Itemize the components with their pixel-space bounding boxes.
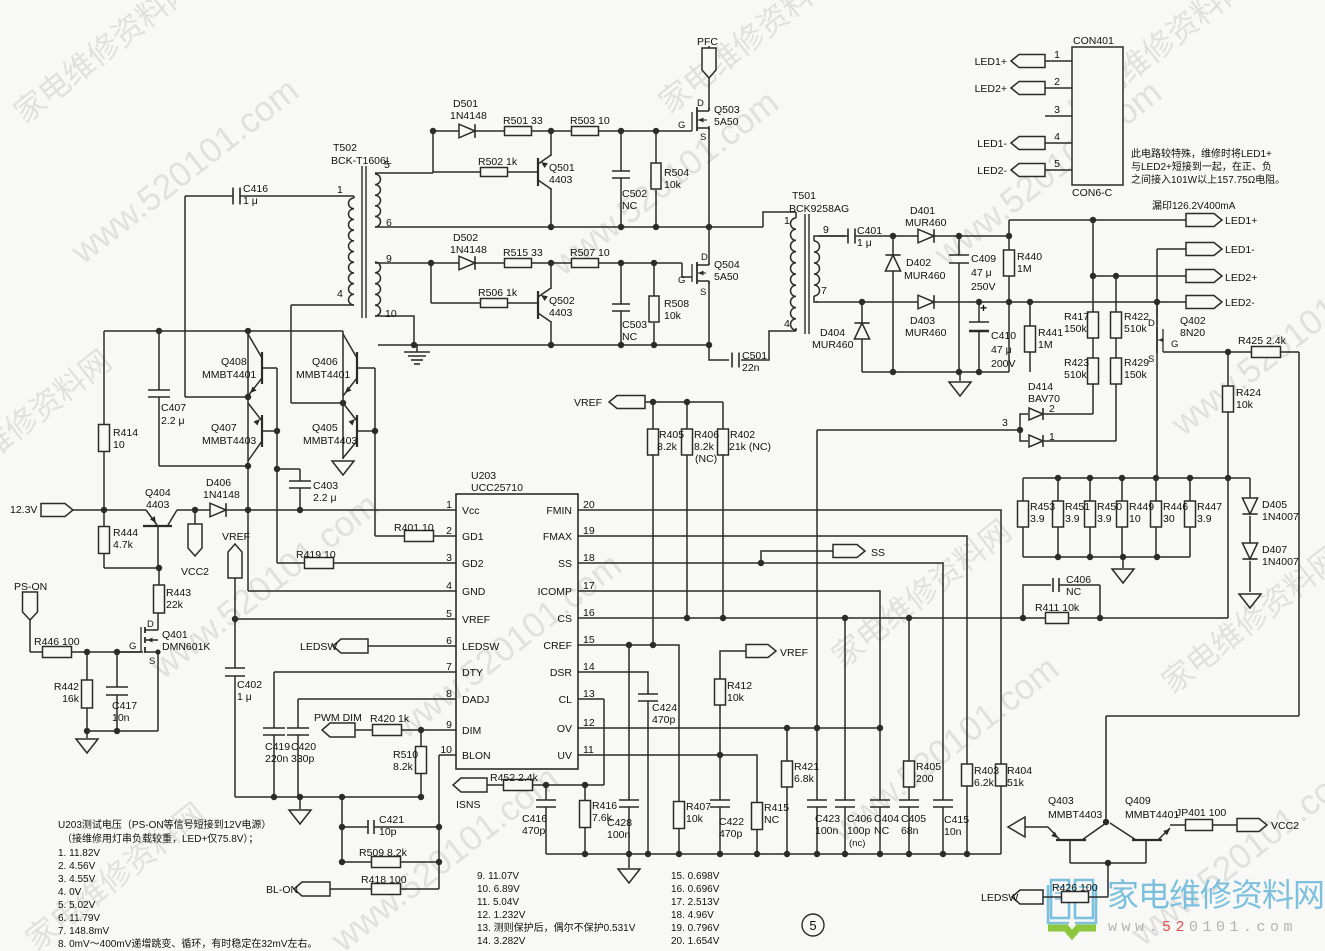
svg-text:SS: SS bbox=[558, 558, 572, 570]
svg-text:MMBT4403: MMBT4403 bbox=[303, 435, 357, 447]
svg-text:UV: UV bbox=[557, 750, 572, 762]
svg-text:D: D bbox=[701, 252, 708, 263]
svg-text:D406: D406 bbox=[206, 477, 231, 489]
svg-text:330p: 330p bbox=[291, 753, 315, 765]
svg-text:5: 5 bbox=[1054, 158, 1060, 170]
svg-text:3: 3 bbox=[1002, 417, 1008, 429]
svg-text:14. 3.282V: 14. 3.282V bbox=[477, 936, 526, 947]
svg-text:1: 1 bbox=[446, 499, 452, 511]
svg-text:D407: D407 bbox=[1262, 544, 1287, 556]
svg-text:19: 19 bbox=[583, 525, 595, 537]
svg-text:100p: 100p bbox=[847, 825, 871, 837]
svg-text:R444: R444 bbox=[113, 527, 138, 539]
svg-text:C419: C419 bbox=[265, 741, 290, 753]
svg-text:1: 1 bbox=[1049, 431, 1055, 443]
svg-text:R402: R402 bbox=[730, 429, 755, 441]
svg-text:C420: C420 bbox=[291, 741, 316, 753]
svg-text:1M: 1M bbox=[1038, 339, 1053, 351]
svg-text:16. 0.696V: 16. 0.696V bbox=[671, 884, 720, 895]
svg-text:C417: C417 bbox=[112, 700, 137, 712]
svg-text:2: 2 bbox=[446, 525, 452, 537]
svg-text:250V: 250V bbox=[971, 281, 996, 293]
svg-text:Q405: Q405 bbox=[312, 422, 338, 434]
svg-text:470p: 470p bbox=[719, 828, 743, 840]
svg-text:LED2-: LED2- bbox=[977, 165, 1007, 177]
svg-text:Vcc: Vcc bbox=[462, 505, 480, 517]
svg-text:10n: 10n bbox=[944, 826, 962, 838]
svg-text:MUR460: MUR460 bbox=[812, 339, 854, 351]
svg-text:PS-ON: PS-ON bbox=[14, 581, 47, 593]
svg-text:1N4148: 1N4148 bbox=[450, 110, 487, 122]
svg-text:1N4007: 1N4007 bbox=[1262, 511, 1299, 523]
svg-text:R504: R504 bbox=[664, 167, 689, 179]
svg-text:5A50: 5A50 bbox=[714, 271, 739, 283]
svg-text:C406: C406 bbox=[847, 813, 872, 825]
svg-text:CS: CS bbox=[557, 613, 572, 625]
svg-text:LED1+: LED1+ bbox=[975, 56, 1007, 68]
svg-text:R441: R441 bbox=[1038, 327, 1063, 339]
svg-text:R422: R422 bbox=[1124, 311, 1149, 323]
svg-text:LEDSW: LEDSW bbox=[300, 641, 337, 653]
svg-text:C405: C405 bbox=[901, 813, 926, 825]
svg-text:10p: 10p bbox=[379, 826, 397, 838]
svg-text:CL: CL bbox=[559, 694, 573, 706]
svg-text:5A50: 5A50 bbox=[714, 116, 739, 128]
svg-text:3: 3 bbox=[1054, 104, 1060, 116]
svg-text:BL-ON: BL-ON bbox=[266, 884, 298, 896]
svg-text:Q504: Q504 bbox=[714, 259, 740, 271]
svg-text:18. 4.96V: 18. 4.96V bbox=[671, 910, 714, 921]
svg-text:G: G bbox=[129, 641, 136, 652]
svg-text:10: 10 bbox=[385, 308, 397, 320]
svg-text:LED1-: LED1- bbox=[977, 138, 1007, 150]
svg-text:R411 10k: R411 10k bbox=[1035, 602, 1080, 614]
svg-text:2. 4.56V: 2. 4.56V bbox=[58, 861, 96, 872]
svg-text:R405: R405 bbox=[916, 761, 941, 773]
svg-text:17. 2.513V: 17. 2.513V bbox=[671, 897, 720, 908]
svg-text:R401 10: R401 10 bbox=[394, 522, 434, 534]
svg-text:10. 6.89V: 10. 6.89V bbox=[477, 884, 520, 895]
svg-text:R502 1k: R502 1k bbox=[478, 156, 518, 168]
svg-text:C415: C415 bbox=[944, 814, 969, 826]
svg-text:PWM DIM: PWM DIM bbox=[314, 712, 362, 724]
svg-text:Q502: Q502 bbox=[549, 295, 575, 307]
svg-text:D414: D414 bbox=[1028, 381, 1053, 393]
svg-text:NC: NC bbox=[622, 331, 638, 343]
svg-text:R509 8.2k: R509 8.2k bbox=[359, 847, 408, 859]
svg-text:MMBT4401: MMBT4401 bbox=[1125, 809, 1179, 821]
svg-text:R449: R449 bbox=[1129, 501, 1154, 513]
svg-text:与LED2+短接到一起，在正、负: 与LED2+短接到一起，在正、负 bbox=[1131, 160, 1272, 173]
svg-text:C409: C409 bbox=[971, 253, 996, 265]
svg-text:www.520101.com: www.520101.com bbox=[1108, 919, 1297, 936]
svg-text:7. 148.8mV: 7. 148.8mV bbox=[58, 926, 109, 937]
svg-text:10: 10 bbox=[113, 439, 125, 451]
svg-text:C502: C502 bbox=[622, 188, 647, 200]
svg-text:G: G bbox=[678, 120, 685, 131]
svg-text:LED2+: LED2+ bbox=[975, 83, 1007, 95]
svg-text:R414: R414 bbox=[113, 427, 138, 439]
svg-text:DADJ: DADJ bbox=[462, 694, 489, 706]
svg-text:MUR460: MUR460 bbox=[904, 270, 946, 282]
svg-text:510k: 510k bbox=[1064, 369, 1088, 381]
svg-text:MMBT4401: MMBT4401 bbox=[202, 369, 256, 381]
svg-text:51k: 51k bbox=[1007, 777, 1025, 789]
svg-text:D401: D401 bbox=[910, 205, 935, 217]
svg-text:R418 100: R418 100 bbox=[361, 874, 407, 886]
svg-text:NC: NC bbox=[622, 200, 638, 212]
svg-text:C416: C416 bbox=[243, 183, 268, 195]
svg-text:C424: C424 bbox=[652, 702, 677, 714]
svg-text:LED2+: LED2+ bbox=[1225, 272, 1257, 284]
svg-text:ISNS: ISNS bbox=[456, 799, 481, 811]
svg-text:10k: 10k bbox=[664, 310, 682, 322]
svg-text:8.2k: 8.2k bbox=[657, 441, 678, 453]
svg-text:47 μ: 47 μ bbox=[991, 344, 1012, 356]
svg-text:1M: 1M bbox=[1017, 263, 1032, 275]
svg-text:BAV70: BAV70 bbox=[1028, 393, 1060, 405]
svg-text:S: S bbox=[1148, 354, 1154, 365]
svg-text:R447: R447 bbox=[1197, 501, 1222, 513]
svg-text:4: 4 bbox=[337, 288, 343, 300]
svg-text:R412: R412 bbox=[727, 680, 752, 692]
svg-text:C416: C416 bbox=[522, 813, 547, 825]
svg-text:Q503: Q503 bbox=[714, 104, 740, 116]
svg-text:7: 7 bbox=[446, 661, 452, 673]
svg-text:17: 17 bbox=[583, 580, 595, 592]
svg-text:MMBT4401: MMBT4401 bbox=[296, 369, 350, 381]
svg-text:DSR: DSR bbox=[550, 667, 573, 679]
svg-text:10n: 10n bbox=[112, 712, 130, 724]
svg-text:30: 30 bbox=[1163, 513, 1175, 525]
svg-text:R426 100: R426 100 bbox=[1052, 882, 1098, 894]
svg-text:MUR460: MUR460 bbox=[905, 217, 947, 229]
svg-text:4. 0V: 4. 0V bbox=[58, 887, 82, 898]
svg-text:3: 3 bbox=[446, 552, 452, 564]
svg-text:470p: 470p bbox=[652, 714, 676, 726]
svg-text:PFC: PFC bbox=[697, 36, 718, 48]
svg-text:3.9: 3.9 bbox=[1097, 513, 1112, 525]
svg-text:15: 15 bbox=[583, 634, 595, 646]
svg-text:8.2k: 8.2k bbox=[694, 441, 715, 453]
svg-text:VREF: VREF bbox=[462, 614, 490, 626]
svg-text:R406: R406 bbox=[694, 429, 719, 441]
svg-text:3.9: 3.9 bbox=[1030, 513, 1045, 525]
svg-text:R450: R450 bbox=[1097, 501, 1122, 513]
svg-text:LEDSW: LEDSW bbox=[462, 641, 499, 653]
svg-text:漏印126.2V400mA: 漏印126.2V400mA bbox=[1152, 200, 1236, 212]
svg-text:Q402: Q402 bbox=[1180, 315, 1206, 327]
svg-text:C421: C421 bbox=[379, 814, 404, 826]
svg-text:4403: 4403 bbox=[549, 307, 573, 319]
svg-text:21k (NC): 21k (NC) bbox=[729, 441, 771, 453]
svg-text:9: 9 bbox=[823, 224, 829, 236]
svg-text:12. 1.232V: 12. 1.232V bbox=[477, 910, 526, 921]
svg-text:C406: C406 bbox=[1066, 574, 1091, 586]
svg-text:19. 0.796V: 19. 0.796V bbox=[671, 923, 720, 934]
svg-text:1N4007: 1N4007 bbox=[1262, 556, 1299, 568]
svg-text:G: G bbox=[678, 275, 685, 286]
svg-text:9: 9 bbox=[386, 253, 392, 265]
svg-text:5. 5.02V: 5. 5.02V bbox=[58, 900, 96, 911]
svg-text:LEDSW: LEDSW bbox=[981, 892, 1018, 904]
svg-text:9: 9 bbox=[446, 719, 452, 731]
svg-text:VCC2: VCC2 bbox=[1271, 820, 1299, 832]
svg-text:LED1+: LED1+ bbox=[1225, 215, 1257, 227]
svg-text:3.9: 3.9 bbox=[1197, 513, 1212, 525]
svg-text:6.8k: 6.8k bbox=[794, 773, 815, 785]
svg-text:VCC2: VCC2 bbox=[181, 566, 209, 578]
svg-text:之间接入101W以上157.75Ω电阻。: 之间接入101W以上157.75Ω电阻。 bbox=[1131, 173, 1285, 186]
svg-text:C501: C501 bbox=[742, 350, 767, 362]
svg-text:1: 1 bbox=[784, 215, 790, 227]
svg-text:220n: 220n bbox=[265, 753, 289, 765]
svg-text:R419 10: R419 10 bbox=[296, 549, 336, 561]
svg-text:R442: R442 bbox=[54, 681, 79, 693]
svg-text:11: 11 bbox=[583, 744, 594, 756]
svg-text:LED2-: LED2- bbox=[1225, 297, 1255, 309]
svg-text:VREF: VREF bbox=[574, 397, 602, 409]
svg-text:Q401: Q401 bbox=[162, 629, 188, 641]
svg-text:D404: D404 bbox=[820, 327, 845, 339]
svg-text:4: 4 bbox=[784, 318, 790, 330]
svg-text:DTY: DTY bbox=[462, 667, 483, 679]
svg-text:R407: R407 bbox=[686, 801, 711, 813]
svg-text:1: 1 bbox=[1054, 49, 1060, 61]
svg-text:C422: C422 bbox=[719, 816, 744, 828]
svg-text:R405: R405 bbox=[659, 429, 684, 441]
svg-text:R515 33: R515 33 bbox=[503, 247, 543, 259]
svg-text:U203测试电压（PS-ON等信号短接到12V电源）: U203测试电压（PS-ON等信号短接到12V电源） bbox=[58, 818, 271, 831]
svg-text:11. 5.04V: 11. 5.04V bbox=[477, 897, 519, 908]
svg-text:MMBT4403: MMBT4403 bbox=[1048, 809, 1102, 821]
svg-text:C423: C423 bbox=[815, 813, 840, 825]
svg-text:12: 12 bbox=[583, 717, 595, 729]
svg-text:Q501: Q501 bbox=[549, 162, 575, 174]
svg-text:VREF: VREF bbox=[780, 647, 808, 659]
svg-text:D: D bbox=[1148, 318, 1155, 329]
svg-text:GD1: GD1 bbox=[462, 531, 484, 543]
svg-text:(NC): (NC) bbox=[695, 453, 717, 465]
svg-text:10: 10 bbox=[1129, 513, 1141, 525]
svg-text:1 μ: 1 μ bbox=[857, 237, 872, 249]
svg-text:OV: OV bbox=[557, 723, 572, 735]
svg-text:10: 10 bbox=[440, 744, 452, 756]
svg-text:16k: 16k bbox=[62, 693, 80, 705]
svg-text:2.2 μ: 2.2 μ bbox=[161, 415, 185, 427]
svg-text:R446: R446 bbox=[1163, 501, 1188, 513]
svg-text:R510: R510 bbox=[393, 749, 418, 761]
svg-text:1 μ: 1 μ bbox=[237, 691, 252, 703]
svg-text:8: 8 bbox=[446, 688, 452, 700]
svg-text:10k: 10k bbox=[1236, 399, 1254, 411]
svg-text:C428: C428 bbox=[607, 817, 632, 829]
svg-text:GD2: GD2 bbox=[462, 558, 484, 570]
svg-text:R417: R417 bbox=[1064, 311, 1089, 323]
svg-text:10k: 10k bbox=[686, 813, 704, 825]
svg-text:R404: R404 bbox=[1007, 765, 1032, 777]
svg-text:FMAX: FMAX bbox=[543, 531, 572, 543]
svg-text:S: S bbox=[700, 132, 706, 143]
svg-text:3.9: 3.9 bbox=[1065, 513, 1080, 525]
svg-text:R446 100: R446 100 bbox=[34, 636, 80, 648]
svg-text:VREF: VREF bbox=[222, 531, 250, 543]
svg-text:CREF: CREF bbox=[543, 640, 572, 652]
svg-text:G: G bbox=[1171, 339, 1178, 350]
svg-text:MUR460: MUR460 bbox=[905, 327, 947, 339]
svg-text:Q403: Q403 bbox=[1048, 795, 1074, 807]
svg-text:10k: 10k bbox=[727, 692, 745, 704]
svg-text:C410: C410 bbox=[991, 330, 1016, 342]
svg-text:NC: NC bbox=[764, 814, 780, 826]
svg-text:200V: 200V bbox=[991, 358, 1016, 370]
svg-text:100n: 100n bbox=[815, 825, 839, 837]
svg-text:R416: R416 bbox=[592, 800, 617, 812]
svg-text:100n: 100n bbox=[607, 829, 631, 841]
svg-text:T501: T501 bbox=[792, 190, 816, 202]
svg-text:NC: NC bbox=[874, 825, 890, 837]
svg-text:Q409: Q409 bbox=[1125, 795, 1151, 807]
svg-text:此电路较特殊，维修时将LED1+: 此电路较特殊，维修时将LED1+ bbox=[1131, 147, 1272, 160]
svg-text:6.2k: 6.2k bbox=[974, 777, 995, 789]
svg-text:10k: 10k bbox=[664, 179, 682, 191]
svg-text:13. 测则保护后，偶尔不保护0.531V: 13. 测则保护后，偶尔不保护0.531V bbox=[477, 921, 636, 934]
svg-text:1N4148: 1N4148 bbox=[203, 489, 240, 501]
svg-text:UCC25710: UCC25710 bbox=[471, 482, 523, 494]
svg-text:20: 20 bbox=[583, 499, 595, 511]
svg-text:4: 4 bbox=[1054, 131, 1060, 143]
svg-text:SS: SS bbox=[871, 547, 885, 559]
svg-text:4: 4 bbox=[446, 580, 452, 592]
svg-text:5: 5 bbox=[384, 159, 390, 171]
svg-text:R453: R453 bbox=[1030, 501, 1055, 513]
svg-text:C503: C503 bbox=[622, 319, 647, 331]
svg-text:T502: T502 bbox=[333, 142, 357, 154]
svg-text:510k: 510k bbox=[1124, 323, 1148, 335]
svg-text:8N20: 8N20 bbox=[1180, 327, 1205, 339]
svg-text:GND: GND bbox=[462, 586, 486, 598]
svg-text:1. 11.82V: 1. 11.82V bbox=[58, 848, 100, 859]
svg-text:D: D bbox=[147, 619, 154, 630]
svg-text:D405: D405 bbox=[1262, 499, 1287, 511]
svg-text:16: 16 bbox=[583, 607, 595, 619]
svg-text:R503 10: R503 10 bbox=[570, 115, 610, 127]
svg-text:+: + bbox=[980, 301, 987, 315]
svg-text:家电维修资料网: 家电维修资料网 bbox=[1107, 877, 1324, 913]
svg-text:470p: 470p bbox=[522, 825, 546, 837]
svg-text:5: 5 bbox=[446, 608, 452, 620]
svg-text:14: 14 bbox=[583, 661, 595, 673]
svg-text:R501 33: R501 33 bbox=[503, 115, 543, 127]
svg-text:3. 4.55V: 3. 4.55V bbox=[58, 874, 96, 885]
svg-text:CON6-C: CON6-C bbox=[1072, 187, 1113, 199]
svg-text:Q406: Q406 bbox=[312, 356, 338, 368]
svg-text:R424: R424 bbox=[1236, 387, 1261, 399]
svg-text:C402: C402 bbox=[237, 679, 262, 691]
svg-text:JP401 100: JP401 100 bbox=[1176, 807, 1226, 819]
svg-text:Q404: Q404 bbox=[145, 487, 171, 499]
svg-text:12.3V: 12.3V bbox=[10, 504, 37, 516]
svg-text:MMBT4403: MMBT4403 bbox=[202, 435, 256, 447]
svg-text:LED1-: LED1- bbox=[1225, 244, 1255, 256]
svg-text:8.2k: 8.2k bbox=[393, 761, 414, 773]
svg-text:Q407: Q407 bbox=[211, 422, 237, 434]
svg-text:4403: 4403 bbox=[146, 499, 170, 511]
svg-text:R440: R440 bbox=[1017, 251, 1042, 263]
svg-text:1 μ: 1 μ bbox=[243, 195, 258, 207]
svg-text:C404: C404 bbox=[874, 813, 899, 825]
svg-text:FMIN: FMIN bbox=[546, 505, 572, 517]
svg-text:8. 0mV～400mV递增跳变、循环，有时稳定在32mV左: 8. 0mV～400mV递增跳变、循环，有时稳定在32mV左右。 bbox=[58, 937, 318, 950]
svg-text:R443: R443 bbox=[166, 587, 191, 599]
svg-text:15. 0.698V: 15. 0.698V bbox=[671, 871, 720, 882]
svg-text:D502: D502 bbox=[453, 232, 478, 244]
svg-text:4.7k: 4.7k bbox=[113, 539, 134, 551]
svg-text:R451: R451 bbox=[1065, 501, 1090, 513]
svg-text:DIM: DIM bbox=[462, 725, 481, 737]
svg-text:6: 6 bbox=[386, 217, 392, 229]
svg-text:R508: R508 bbox=[664, 298, 689, 310]
svg-text:47 μ: 47 μ bbox=[971, 267, 992, 279]
svg-text:BLON: BLON bbox=[462, 750, 491, 762]
svg-text:7: 7 bbox=[821, 285, 827, 297]
svg-text:R452 2.4k: R452 2.4k bbox=[490, 772, 539, 784]
svg-text:D402: D402 bbox=[906, 257, 931, 269]
svg-text:R415: R415 bbox=[764, 802, 789, 814]
svg-text:D403: D403 bbox=[910, 315, 935, 327]
svg-text:R506 1k: R506 1k bbox=[478, 287, 518, 299]
svg-text:R421: R421 bbox=[794, 761, 819, 773]
svg-text:R429: R429 bbox=[1124, 357, 1149, 369]
svg-text:NC: NC bbox=[1066, 586, 1082, 598]
svg-text:5: 5 bbox=[809, 918, 816, 933]
svg-text:R403: R403 bbox=[974, 765, 999, 777]
svg-text:20. 1.654V: 20. 1.654V bbox=[671, 936, 720, 947]
svg-text:18: 18 bbox=[583, 552, 595, 564]
svg-text:C401: C401 bbox=[857, 225, 882, 237]
svg-text:BCK-T1606L: BCK-T1606L bbox=[331, 155, 392, 167]
svg-text:150k: 150k bbox=[1064, 323, 1088, 335]
svg-text:R420 1k: R420 1k bbox=[370, 713, 410, 725]
svg-text:150k: 150k bbox=[1124, 369, 1148, 381]
svg-text:4403: 4403 bbox=[549, 174, 573, 186]
svg-text:1N4148: 1N4148 bbox=[450, 244, 487, 256]
svg-text:68n: 68n bbox=[901, 825, 919, 837]
svg-text:（接维修用灯串负载较重，LED+仅75.8V）；: （接维修用灯串负载较重，LED+仅75.8V）； bbox=[62, 832, 258, 845]
svg-text:1: 1 bbox=[337, 184, 343, 196]
svg-text:6. 11.79V: 6. 11.79V bbox=[58, 913, 100, 924]
svg-text:R423: R423 bbox=[1064, 357, 1089, 369]
svg-text:(nc): (nc) bbox=[849, 838, 865, 849]
svg-text:R425 2.4k: R425 2.4k bbox=[1238, 335, 1287, 347]
svg-text:CON401: CON401 bbox=[1073, 35, 1114, 47]
svg-text:13: 13 bbox=[583, 688, 595, 700]
svg-text:DMN601K: DMN601K bbox=[162, 641, 210, 653]
svg-text:2: 2 bbox=[1054, 76, 1060, 88]
svg-text:S: S bbox=[700, 287, 706, 298]
svg-text:BCK9258AG: BCK9258AG bbox=[789, 203, 849, 215]
svg-text:22k: 22k bbox=[166, 599, 184, 611]
svg-text:C407: C407 bbox=[161, 402, 186, 414]
svg-text:D: D bbox=[697, 98, 704, 109]
svg-text:S: S bbox=[149, 656, 155, 667]
svg-text:Q408: Q408 bbox=[221, 356, 247, 368]
svg-text:200: 200 bbox=[916, 773, 934, 785]
svg-text:R507 10: R507 10 bbox=[570, 247, 610, 259]
svg-text:U203: U203 bbox=[471, 470, 496, 482]
svg-text:2.2 μ: 2.2 μ bbox=[313, 492, 337, 504]
svg-text:6: 6 bbox=[446, 635, 452, 647]
